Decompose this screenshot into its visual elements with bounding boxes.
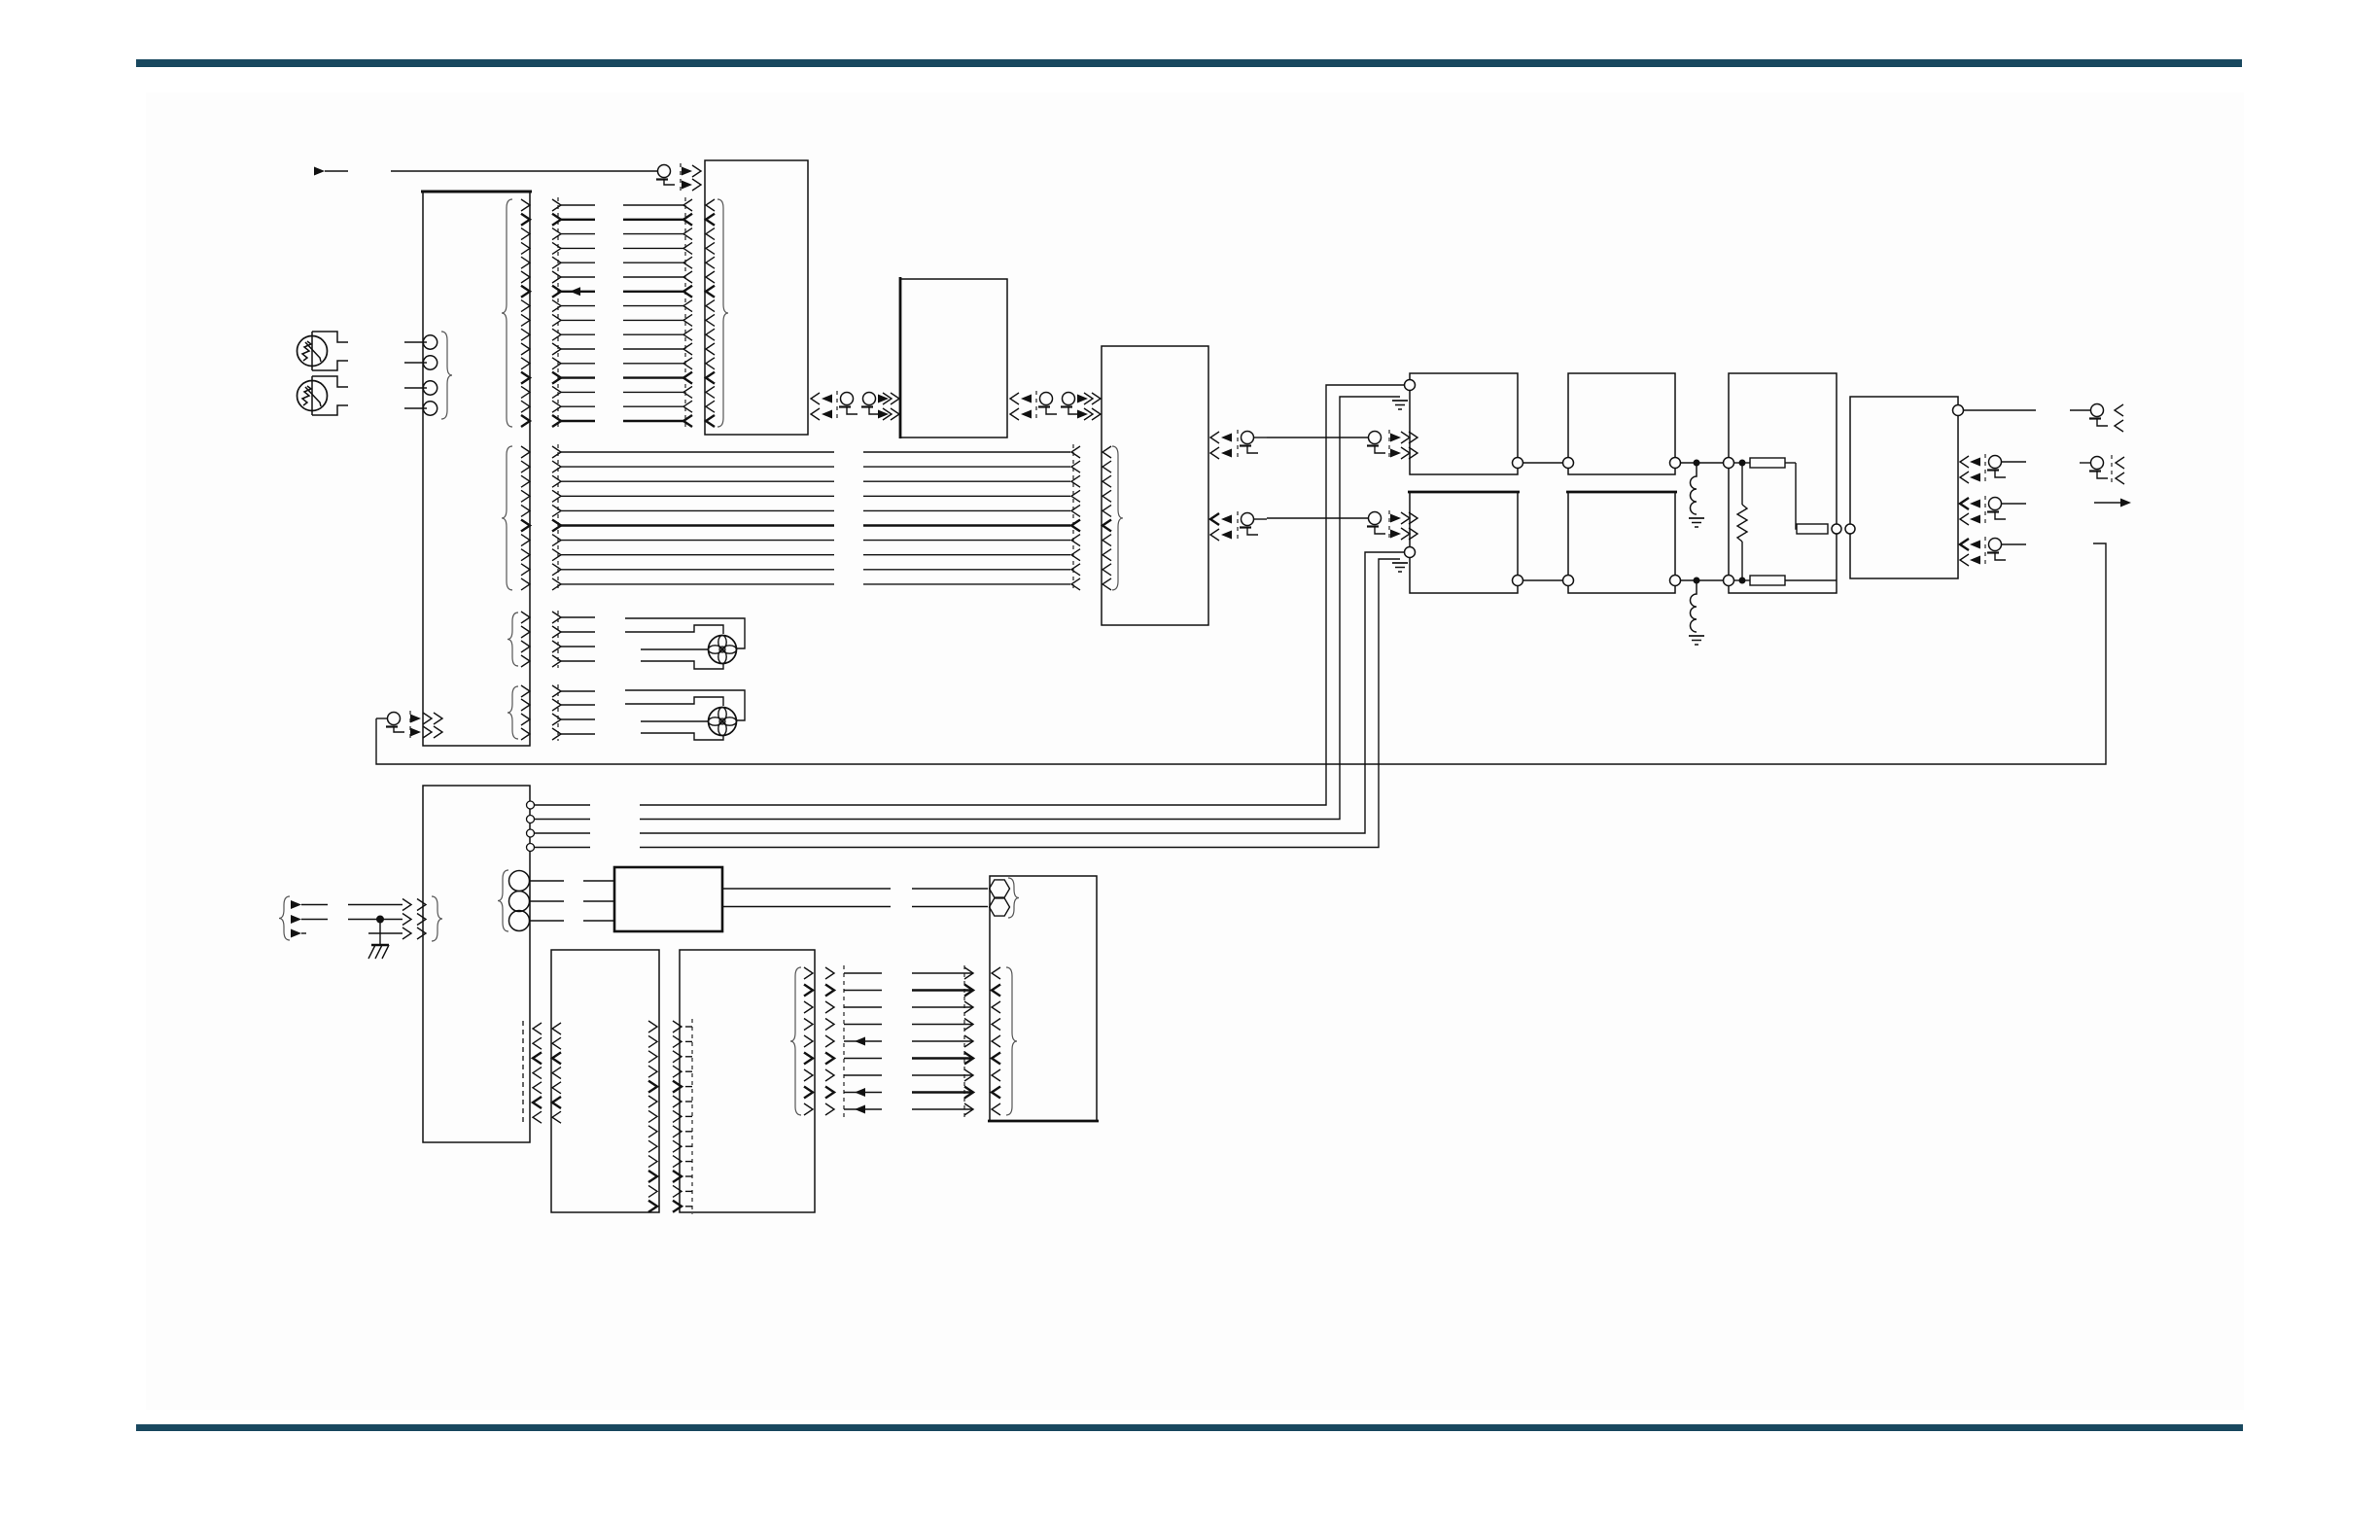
connector CN9 three circle contacts on U5: [498, 870, 614, 931]
node N2 on M2 left: [1405, 547, 1416, 558]
bottom border bar: [136, 1424, 2243, 1431]
connector J4 pins on U2 left edge: [706, 199, 728, 427]
connector P4 circle at M2: [1367, 510, 1417, 542]
connector J7 bus into U4: [1071, 444, 1080, 592]
fan FM1: [709, 636, 737, 664]
ground G3 under L1: [1689, 518, 1704, 527]
input connector P7 three phase arrows: [279, 896, 328, 940]
inductor L2: [1691, 583, 1697, 632]
junction dot D5: [377, 916, 384, 923]
fuse F2: [1797, 524, 1828, 534]
IC U6 memory block 1: [551, 950, 659, 1212]
module M3 HVPS upper: [1568, 373, 1675, 474]
chassis ground G5: [368, 923, 389, 959]
connector J5 pins on U1 right edge bus: [502, 446, 530, 590]
IC U4 formatter block: [1102, 346, 1208, 625]
connector P3 circle at M1: [1367, 430, 1417, 461]
fan FM2 leads and shroud: [625, 690, 745, 740]
IC U2 driver block: [705, 160, 808, 435]
connector J11 fan2 pins on U1: [507, 685, 530, 740]
node N7 M4 bottom left: [1563, 576, 1574, 586]
wire W6 U5 to ground stub 2: [527, 559, 1381, 852]
module M8 finisher block: [988, 876, 1099, 1121]
IC U3 interface block: [900, 277, 1007, 438]
wire W11 row upper into M5: [1734, 462, 1750, 464]
connector J8 pins on U4 left edge: [1102, 446, 1123, 590]
junction dot D3: [1739, 460, 1745, 466]
connector CN10 hex contacts on M8: [990, 878, 1020, 918]
connector P2 circle input: [376, 711, 442, 739]
node N11 M5 right edge: [1832, 524, 1841, 534]
connector J18 on U5 lower right: [523, 1021, 542, 1125]
inline connector CN3 between U3 and U4: [1010, 391, 1101, 422]
wire W15 input lines: [348, 905, 402, 934]
wire W13 fuse1 corner: [1796, 463, 1797, 529]
inline connector CN2 between U2 and U3: [811, 391, 899, 422]
connector CN4 on U4 right edge upper: [1210, 430, 1267, 461]
connector J19 pins on U6 left edge: [552, 1023, 561, 1123]
fuse F1: [1750, 458, 1796, 468]
node N3 M1 bottom right: [1513, 458, 1523, 469]
connector P1 arrows row2: [682, 179, 701, 191]
connector J16 pins on U7 right edge: [790, 967, 813, 1115]
input arrow IN1: [314, 167, 348, 176]
module M5 fuser drive block: [1729, 373, 1837, 593]
node N12 M6 left edge: [1845, 524, 1855, 534]
module M6 fuser assembly block: [1850, 397, 1958, 578]
node N5 M3 bottom left: [1563, 458, 1574, 469]
node N1 on M1 left top: [1405, 380, 1416, 391]
fan FM1 leads and shroud: [625, 618, 745, 669]
node N8 M4 bottom right: [1670, 576, 1681, 586]
connector J3 harness side into U2: [623, 197, 692, 429]
ground G2 near M2: [1380, 559, 1408, 572]
connector CN1 coil contacts on U1 left edge: [404, 332, 452, 419]
connector J12 fan2 harness side: [552, 684, 595, 741]
connector J9 fan1 pins on U1: [507, 612, 530, 667]
resistor R1 vertical: [1737, 466, 1747, 577]
module M7 power module: [614, 867, 722, 931]
node N9 on M5 left edge upper: [1724, 458, 1734, 469]
connector J17 harness from U7 with direction arrows: [825, 965, 882, 1117]
node N6 M3 bottom right: [1670, 458, 1681, 469]
ground G1 near M1: [1376, 397, 1408, 409]
connector CN7 M6 right middle: [1960, 496, 2026, 527]
module M4 HVPS lower: [1566, 492, 1677, 593]
wire W16 M7 outputs: [722, 889, 988, 907]
module M1 LVPS upper: [1410, 373, 1518, 474]
top border bar: [136, 59, 2242, 67]
signal arrow on row7: [570, 287, 595, 296]
node N13 M6 top right: [1953, 405, 2037, 416]
connector J20 pins on U6 right edge: [648, 1021, 657, 1212]
node N10 on M5 left edge lower: [1724, 576, 1734, 586]
connector J14 harness into M8: [912, 965, 973, 1117]
IC U7 memory block 2: [680, 950, 815, 1212]
node N4 M2 bottom right: [1513, 576, 1523, 586]
ground G4 under L2: [1689, 636, 1704, 645]
connector J15 pins on M8 left edge: [992, 967, 1017, 1115]
wire W4 U5 to ground stub: [527, 397, 1377, 823]
junction dot D2: [1694, 577, 1699, 583]
IC U1 main controller block: [421, 192, 532, 746]
connector P5 far right row1: [2070, 404, 2123, 433]
connector P6 far right row2: [2080, 455, 2124, 486]
module M2 LVPS lower: [1408, 492, 1520, 593]
connector J6 bus harness side: [552, 444, 561, 592]
thermistor RT1: [297, 332, 349, 370]
wire W14 return line long: [376, 543, 2106, 764]
connector J21 pins on U7 left edge: [673, 1019, 692, 1214]
bus wires W-BUS1 10 lines: [561, 452, 1070, 584]
connector CN6 M6 right upper: [1960, 454, 2026, 485]
IC U5 engine board block: [423, 786, 530, 1142]
wire W10 M4 to M5: [1680, 579, 1724, 581]
wire W8 M2 to M4: [1522, 579, 1563, 581]
wire W5 U5 to M2 node: [527, 552, 1405, 837]
connector CN8 M6 right lower: [1960, 537, 2026, 568]
connector P1 circle: [656, 165, 675, 186]
wire W12 row lower into M5: [1734, 579, 1750, 581]
page background: [146, 92, 2244, 1410]
connector CN5 on U4 right edge lower: [1210, 511, 1267, 542]
wire W9 M3 to M5: [1680, 462, 1724, 464]
wire net W2 to M2: [1267, 517, 1368, 519]
wire net W1 to M1: [1267, 437, 1368, 438]
connector J13 into U5 left edge: [402, 896, 442, 941]
wire net TOP to connector P1: [391, 170, 657, 172]
connector P1 arrows row1: [682, 165, 701, 177]
fan FM2: [709, 708, 737, 736]
wire W3 U5 to M1 node: [527, 385, 1405, 809]
connector J2 harness side with stubs: [552, 197, 595, 429]
connector J1 pins on U1 right edge: [502, 199, 530, 427]
junction dot D4: [1739, 577, 1745, 583]
thermistor RT2: [297, 376, 349, 415]
junction dot D1: [1694, 460, 1699, 466]
connector J10 fan1 harness side: [552, 611, 595, 668]
wire W7 M1 to M3: [1522, 462, 1563, 464]
fuse F3: [1750, 576, 1837, 585]
inductor L1: [1691, 466, 1697, 514]
output arrow OUT1: [2094, 499, 2131, 507]
connector P1 dashed separator: [680, 163, 682, 192]
